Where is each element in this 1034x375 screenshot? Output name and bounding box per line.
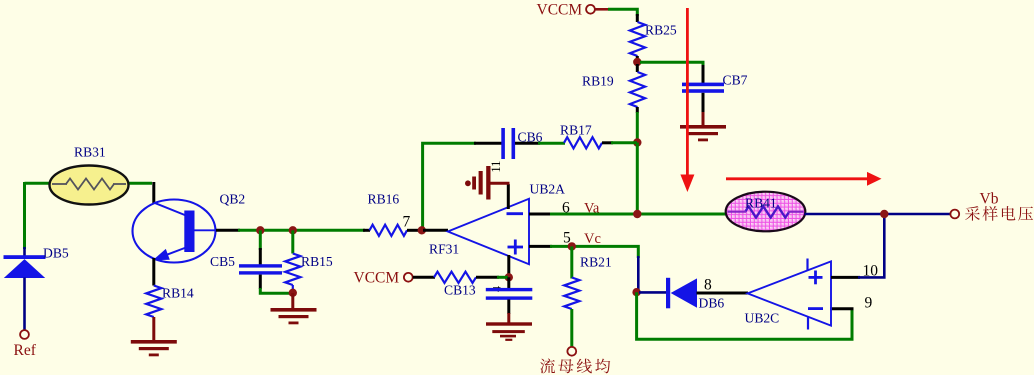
op-amp UB2A pin6 wire black [529,213,552,216]
wire navy DB5 anode [23,247,26,257]
wire green to CB7 [640,62,703,67]
capacitor CB5 [239,264,282,274]
op-amp UB2A power pin 11 stub [507,184,510,209]
wire black QB2 emitter pin [152,258,155,286]
svg-text:9: 9 [865,295,873,312]
wire black QB2 collector pin [152,182,155,204]
svg-text:Vb: Vb [980,191,999,208]
wire black RB19 top stub [636,64,639,72]
wire dark red to ground [702,112,705,126]
resistor RB19 [630,72,645,107]
wire black DB6 to UB2C [697,292,749,295]
red arrow horizontal [726,177,869,180]
wire green RB21 bottom [570,309,573,347]
wire green DB5 vertical [23,182,26,249]
terminal circle VCCM top [586,5,595,14]
wire green node down to Va [636,143,639,215]
wire green base rail [238,229,365,232]
ground (below RB14) [131,340,177,356]
wire navy Vb [805,213,951,216]
resistor RB15 [285,254,300,286]
resistor RB14 [146,286,161,318]
svg-text:RB17: RB17 [560,123,592,138]
terminal circle Ref [20,330,29,339]
transistor QB2 collector line [154,203,186,216]
svg-text:RF31: RF31 [429,242,459,257]
node junction pin4/CB13 [505,273,513,281]
wire dark red to ground [507,313,510,324]
svg-text:RB19: RB19 [582,74,614,89]
svg-text:6: 6 [562,200,570,217]
svg-text:DB6: DB6 [699,296,725,311]
svg-text:DB5: DB5 [43,246,69,261]
ground (below RB15) [271,308,317,324]
wire green CB5 to RB15 node [260,288,290,293]
transistor QB2 body [133,200,216,263]
wire dark red to rotated ground [489,182,510,185]
capacitor (bypass at pin4) [486,288,533,300]
op-amp UB2C pin10 wire black [831,276,860,279]
resistor RB31 highlight ellipse [50,166,129,205]
resistor RB41 leads [728,211,747,213]
resistor RB17 [564,137,602,148]
svg-text:RB16: RB16 [368,192,400,207]
resistor RB41 highlight ellipse [726,192,806,232]
wire navy pin10 [858,214,884,277]
diode DB6 [666,278,697,309]
op-amp UB2A pin5 wire black [529,245,552,248]
resistor RB21 [564,278,579,310]
wire RB19 bottom black [636,107,639,113]
resistor RB31 [66,179,114,190]
svg-text:RB15: RB15 [301,254,333,269]
terminal circle bus [567,347,576,356]
op-amp UB2C minus [808,307,823,310]
node junction RB15 bottom [289,289,297,297]
op-amp UB2C plus [809,276,823,279]
wire black pin9 [830,307,854,310]
svg-text:RB25: RB25 [645,23,677,38]
wire black CB7 bottom pin [702,93,705,113]
terminal circle VCCM mid [404,273,413,282]
capacitor CB13 (zigzag) [434,272,476,283]
svg-text:UB2A: UB2A [530,182,566,197]
wire black RB25 bottom [636,56,639,62]
wire navy Vc to DB6 node [637,256,640,290]
wire navy DB6 left [639,291,667,294]
node junction CB5 [256,226,264,234]
wire black RB16 left stub [363,229,370,232]
node junction RB15 [289,226,297,234]
wire black CB6 right pin [515,142,540,145]
op-amp UB2A body [448,199,529,264]
resistor RB15 bottom lead [292,285,294,291]
wire black CB7 top pin [702,65,705,84]
ground (below bypass cap) [486,322,532,341]
node 7 junction [418,226,426,234]
wire green CB5 stub [259,230,262,250]
svg-text:CB13: CB13 [444,283,476,298]
wire black cap bottom [507,300,510,315]
op-amp UB2C top power stub [806,259,808,271]
wire green Ref rail horizontal [25,182,153,185]
svg-text:RB41: RB41 [745,196,777,211]
wire black node7 to op-amp [423,229,448,232]
wire black node to cap [507,277,510,288]
wire black RB16 right [407,229,420,232]
node junction Vb [880,210,888,218]
svg-text:QB2: QB2 [220,192,246,207]
wire navy DB5 to Ref [23,278,26,331]
transistor QB2 base pin blue [195,229,218,231]
wire black stub to RB25 [636,14,639,22]
svg-text:CB5: CB5 [210,254,235,269]
op-amp UB2C body [748,261,831,325]
node junction Va/RB19net [633,210,641,218]
terminal circle Vb [950,210,959,219]
svg-text:11: 11 [489,161,503,173]
wire green Va [550,213,727,216]
svg-text:10: 10 [863,263,879,280]
wire green RB19 to node [636,112,639,143]
svg-text:VCCM: VCCM [354,270,400,287]
wire black CB5 top pin [259,248,262,265]
resistor RB31 leads [52,183,67,185]
op-amp UB2A plus [508,246,524,249]
wire black RB17 right [602,141,613,144]
wire green RB15 top stub [291,230,294,253]
red arrow vertical [686,8,689,176]
svg-text:VCCM: VCCM [537,2,583,19]
wire black CB6 left pin [474,142,502,145]
svg-text:UB2C: UB2C [745,311,780,326]
wire black CB5 bottom pin [259,275,262,289]
net label 采样电压 [965,206,1033,221]
op-amp UB2A power pin 4 stub [507,255,510,277]
wire (VCCM stub, dark red) [595,8,608,11]
wire green feedback vertical [423,143,476,228]
svg-text:Ref: Ref [14,342,37,359]
node junction RB17/RB19 [633,138,641,146]
wire black CB13 to node [476,276,499,279]
transistor QB2 emitter arrow [153,249,170,260]
wire dark red RB14 to ground [152,317,155,341]
resistor RB41 [745,206,789,217]
svg-text:RB21: RB21 [580,255,612,270]
wire black base pin [216,229,240,232]
transistor QB2 base bar [184,211,194,253]
wire green top rail [608,9,637,16]
svg-text:RB31: RB31 [74,145,106,160]
node junction RB25/RB19/CB7 [633,58,641,66]
node junction RB21 [568,242,576,250]
svg-text:Va: Va [584,201,600,217]
svg-text:RB14: RB14 [162,286,194,301]
capacitor CB6 [501,128,515,159]
wire green RB21 top [570,246,573,278]
transistor QB2 emitter line [156,248,186,259]
wire green CB6 to RB17 [538,142,565,145]
svg-text:CB7: CB7 [723,73,748,88]
resistor RB16 [370,225,408,236]
wire green Vc [550,246,638,258]
wire green RB17 to node [611,141,637,144]
wire dark red RB15 to ground [291,293,294,309]
resistor RB25 [630,22,645,56]
diode DB5 [4,255,46,278]
ground (below CB7) [680,125,726,141]
op-amp UB2C bottom power stub [807,318,809,330]
node junction DB6 [632,288,640,296]
svg-text:7: 7 [403,214,411,231]
wire green below DB6 node [637,292,852,339]
power ground rotated (pin11) [465,166,491,200]
power port 流母线均 [540,358,610,373]
capacitor CB7 [682,83,724,93]
wire black VCCM to CB13 [413,276,435,279]
svg-text:Vc: Vc [584,231,601,247]
op-amp UB2A minus [507,212,524,215]
svg-text:8: 8 [704,277,712,294]
